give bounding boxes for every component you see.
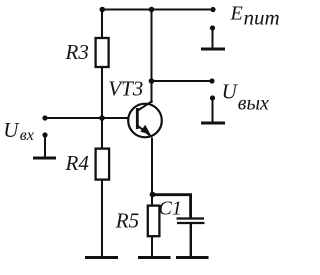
svg-text:R5: R5 — [115, 209, 139, 233]
svg-text:U: U — [222, 79, 239, 103]
svg-text:пит: пит — [244, 6, 280, 30]
svg-text:вх: вх — [20, 127, 34, 144]
svg-text:R3: R3 — [65, 40, 89, 64]
svg-text:R4: R4 — [65, 151, 90, 175]
svg-text:C1: C1 — [159, 198, 182, 220]
svg-text:VT3: VT3 — [108, 76, 143, 100]
svg-text:вых: вых — [238, 92, 269, 114]
svg-text:U: U — [3, 118, 20, 142]
svg-text:E: E — [230, 3, 243, 25]
